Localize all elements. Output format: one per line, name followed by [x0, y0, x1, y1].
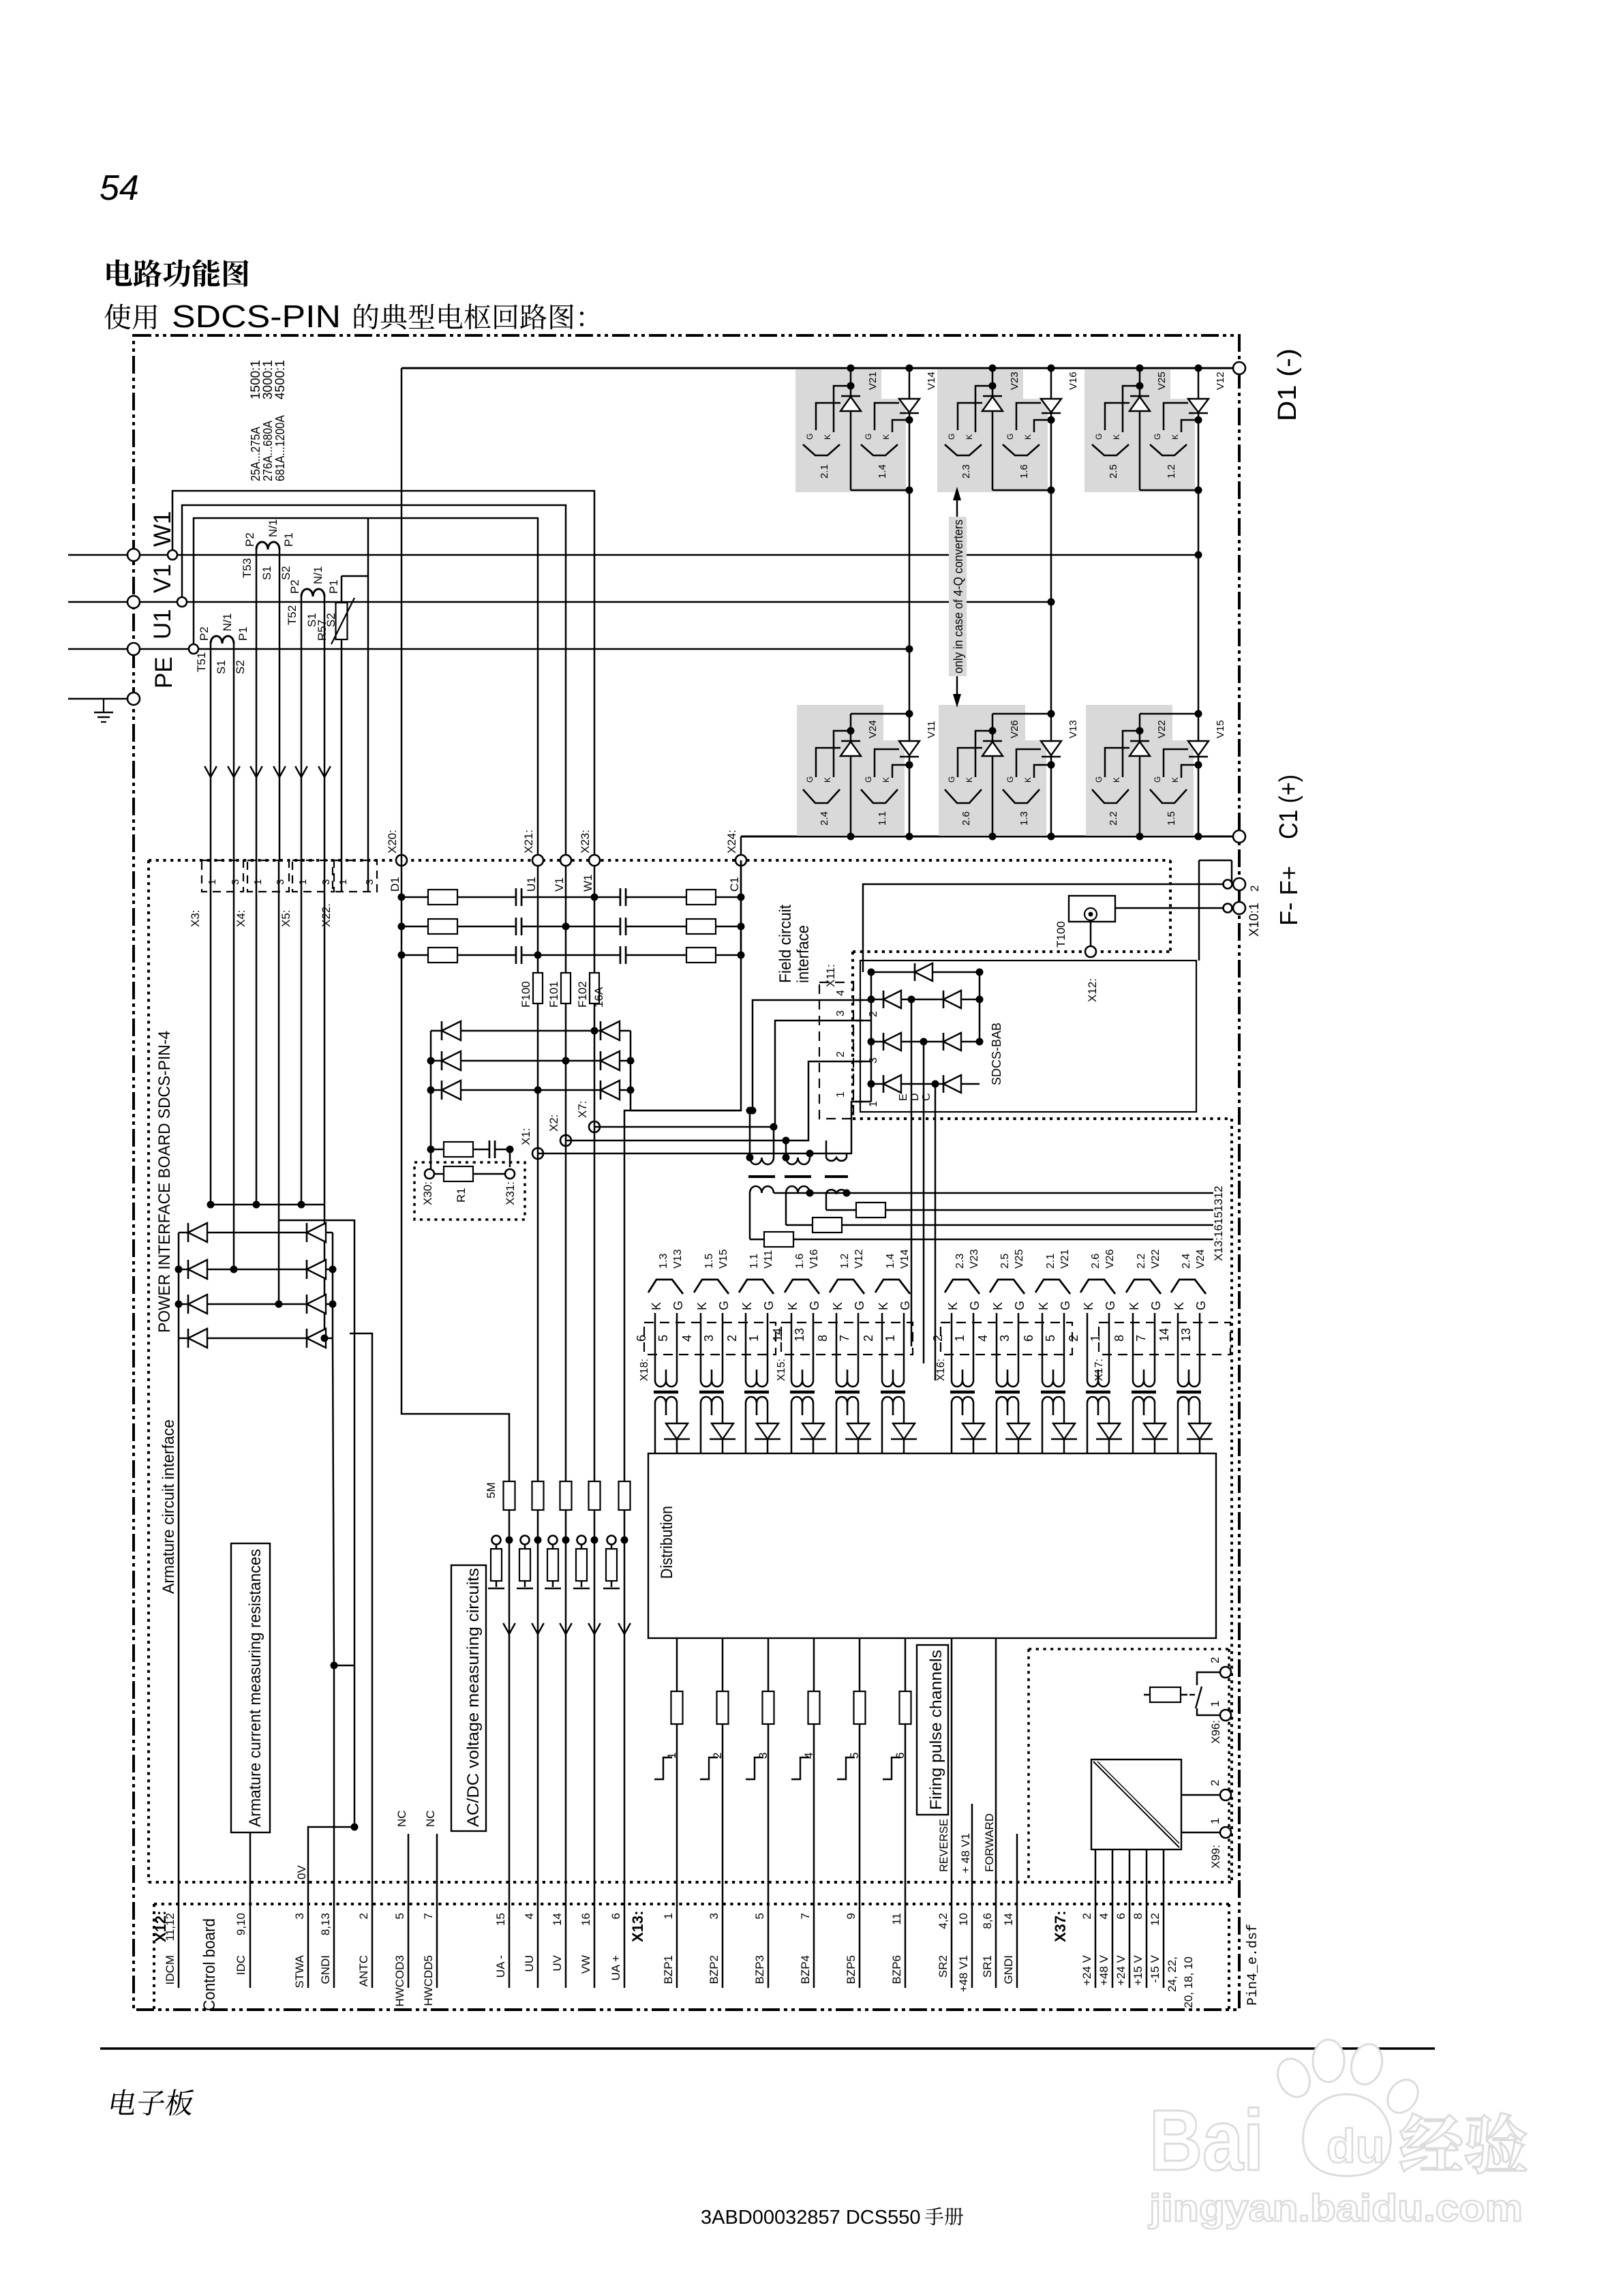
connector X96:2	[1220, 1667, 1231, 1678]
svg-text:2.5: 2.5	[1108, 464, 1119, 479]
resistor snubber R row3 left	[428, 948, 457, 963]
svg-text:X10:1: X10:1	[1247, 903, 1262, 937]
resistor BZP6	[900, 1691, 911, 1724]
svg-text:V12: V12	[1215, 372, 1226, 390]
core	[699, 1391, 724, 1394]
svg-text:BZP5: BZP5	[845, 1955, 858, 1984]
pulse transformer field T1	[749, 1111, 751, 1158]
field taps E D C	[911, 999, 913, 1346]
svg-text:V26: V26	[1104, 1249, 1116, 1269]
svg-text:K: K	[877, 1302, 890, 1310]
svg-text:2: 2	[1080, 1913, 1093, 1919]
diode bridge R1963	[307, 1329, 326, 1348]
svg-text:R57: R57	[316, 620, 329, 641]
svg-text:2.4: 2.4	[1181, 1254, 1192, 1269]
svg-text:G: G	[1153, 776, 1162, 783]
svg-text:13: 13	[793, 1328, 806, 1342]
wire F-	[863, 884, 1223, 972]
wire U1 phase line	[68, 648, 909, 650]
connector X18	[644, 1323, 776, 1355]
svg-text:X17:: X17:	[1093, 1359, 1105, 1381]
svg-text:7: 7	[838, 1335, 851, 1342]
svg-text:11,12: 11,12	[164, 1913, 177, 1941]
svg-text:6: 6	[1022, 1335, 1035, 1342]
svg-text:5: 5	[1044, 1335, 1057, 1342]
node D1 negative rail	[401, 367, 1239, 369]
svg-text:2.1: 2.1	[1045, 1254, 1057, 1269]
svg-text:G: G	[1153, 434, 1162, 440]
svg-text:3: 3	[998, 1335, 1012, 1342]
svg-text:4: 4	[835, 990, 847, 996]
capacitor snubber row2 right	[620, 918, 626, 935]
watermark Baidu Jingyan	[1149, 2040, 1424, 2188]
diode bridge L1808	[188, 1223, 207, 1242]
svg-text:UA +: UA +	[609, 1955, 622, 1980]
connector X31	[505, 1169, 515, 1179]
thyristor V15	[1195, 833, 1202, 841]
resistor BZP3	[763, 1691, 774, 1724]
svg-text:P1: P1	[282, 532, 295, 547]
core	[1041, 1391, 1065, 1394]
resistor 5M UA +	[619, 1481, 631, 1510]
svg-text:8: 8	[1132, 1913, 1144, 1919]
svg-text:X11:: X11:	[824, 964, 837, 987]
wire bridge left bus	[178, 1233, 180, 1338]
connector X30	[425, 1169, 434, 1179]
core	[950, 1391, 975, 1394]
wire V1 entry	[565, 866, 567, 973]
svg-text:P1: P1	[237, 626, 249, 641]
wire -15 V	[1163, 1849, 1165, 1988]
svg-text:11: 11	[890, 1913, 903, 1925]
wire gnd link	[334, 1665, 354, 1667]
svg-text:6: 6	[894, 1753, 907, 1759]
svg-text:G: G	[1149, 1301, 1163, 1310]
svg-text:K: K	[1172, 1302, 1186, 1310]
svg-text:V25: V25	[1014, 1249, 1025, 1269]
svg-text:4: 4	[802, 1753, 815, 1759]
diode bridge L1913	[188, 1295, 207, 1314]
svg-text:K: K	[1170, 777, 1180, 783]
svg-text:1: 1	[662, 1913, 675, 1919]
svg-text:V16: V16	[808, 1249, 820, 1269]
svg-text:PE: PE	[151, 656, 177, 689]
core	[1132, 1391, 1156, 1394]
svg-text:Armature current measuring res: Armature current measuring resistances	[246, 1549, 264, 1827]
svg-text:Control board: Control board	[200, 1918, 219, 2011]
fuse F1 to X96	[1150, 1687, 1181, 1702]
wire C1 snubber bus	[740, 860, 742, 955]
node U1-V14	[906, 646, 913, 653]
capacitor snubber row1 right	[620, 888, 626, 906]
field diode row y=1466	[871, 999, 980, 1001]
svg-text:6: 6	[635, 1335, 648, 1342]
wire X7 run	[594, 1021, 863, 1127]
svg-text:10: 10	[957, 1913, 970, 1926]
wire +24 V	[1129, 1849, 1131, 1988]
svg-text:V15: V15	[718, 1249, 729, 1269]
wire HWCOD3 (NC)	[408, 1834, 410, 1988]
svg-text:3: 3	[868, 1057, 879, 1063]
svg-text:T51: T51	[195, 652, 208, 672]
output BZP5	[859, 1638, 861, 1988]
pulse transformer field T3	[825, 1141, 828, 1158]
svg-text:K: K	[1082, 1302, 1095, 1310]
core	[744, 1391, 769, 1394]
diode clamp L1556	[442, 1051, 461, 1070]
svg-text:P2: P2	[198, 626, 211, 641]
core	[881, 1391, 905, 1394]
svg-text:2.2: 2.2	[1108, 811, 1119, 826]
svg-text:K: K	[650, 1302, 663, 1310]
wire +15 V	[1146, 1849, 1148, 1988]
svg-text:GNDI: GNDI	[319, 1955, 332, 1984]
svg-text:X30:: X30:	[421, 1181, 434, 1205]
svg-text:STWA: STWA	[293, 1954, 306, 1988]
core	[790, 1391, 815, 1394]
svg-text:2: 2	[711, 1753, 724, 1759]
resistor R1	[444, 1166, 473, 1181]
wire V1 phase line	[68, 601, 1051, 603]
field diode row y=1426	[871, 971, 980, 973]
thyristor V23	[937, 369, 1023, 492]
svg-text:G: G	[808, 1301, 821, 1310]
connector X23	[589, 855, 600, 866]
diode bridge L1963	[188, 1329, 207, 1348]
diode field 1426-1355	[915, 963, 932, 981]
thyristor V16	[1050, 368, 1052, 836]
current transformer T51	[211, 636, 234, 644]
svg-text:1.3: 1.3	[658, 1254, 669, 1269]
thyristor V11	[906, 833, 913, 841]
svg-text:V25: V25	[1156, 372, 1168, 390]
svg-text:2.3: 2.3	[954, 1254, 966, 1269]
svg-text:6: 6	[1114, 1913, 1127, 1919]
svg-text:+24 V: +24 V	[1114, 1954, 1127, 1986]
resistor field pulse c	[764, 1232, 793, 1247]
thyristor V14	[909, 368, 911, 836]
svg-text:+24 V: +24 V	[1080, 1954, 1093, 1986]
note only in case of 4-Q converters	[949, 517, 967, 676]
ground	[573, 1588, 590, 1590]
bridge diode row 1913	[179, 1303, 333, 1305]
terminal D1	[1233, 362, 1245, 374]
svg-text:2: 2	[835, 1051, 847, 1057]
connector X20	[396, 855, 407, 866]
svg-text:6: 6	[609, 1913, 622, 1919]
svg-text:K: K	[1023, 777, 1033, 783]
resistor divider UA -	[491, 1549, 502, 1581]
svg-text:D1: D1	[389, 877, 401, 892]
svg-text:X24:: X24:	[725, 830, 738, 854]
diode bridge R1913	[307, 1295, 326, 1314]
bridge diode row 1963	[179, 1338, 333, 1340]
node W1-V12	[1195, 552, 1202, 559]
wire X2 run	[566, 1061, 863, 1141]
svg-text:N/1: N/1	[221, 614, 234, 631]
resistor field pulse a	[856, 1203, 885, 1218]
terminal F+	[1224, 904, 1232, 913]
svg-text:V13: V13	[672, 1249, 684, 1269]
svg-text:K: K	[1023, 434, 1033, 440]
resistor damping	[444, 1142, 473, 1157]
svg-text:1: 1	[868, 1101, 879, 1107]
field diode row y=1590	[871, 1083, 980, 1085]
svg-text:G: G	[1005, 776, 1015, 783]
wire D1 drop	[401, 368, 403, 860]
svg-text:1.3: 1.3	[1018, 811, 1030, 826]
diode clamp R1599	[601, 1081, 620, 1100]
svg-text:K: K	[823, 434, 832, 440]
svg-text:2.2: 2.2	[1136, 1254, 1147, 1269]
svg-text:8,13: 8,13	[319, 1913, 332, 1935]
svg-text:3: 3	[708, 1913, 721, 1919]
svg-text:+15 V: +15 V	[1132, 1954, 1144, 1986]
svg-text:8: 8	[1112, 1335, 1126, 1342]
svg-text:SDCS-BAB: SDCS-BAB	[990, 1023, 1003, 1085]
svg-text:C: C	[921, 1093, 932, 1101]
diode clamp L1512	[442, 1021, 461, 1040]
wire GNDI	[333, 1338, 334, 1988]
svg-text:+ 48 V1: + 48 V1	[959, 1833, 972, 1873]
svg-text:X31:: X31:	[504, 1181, 517, 1205]
output BZP1	[676, 1638, 678, 1988]
control board outline (dotted)	[154, 1903, 1229, 1905]
wire clamp left bus	[430, 1031, 432, 1174]
svg-text:9: 9	[845, 1913, 858, 1919]
transformer T100	[1069, 896, 1115, 922]
svg-text:V12: V12	[853, 1249, 865, 1269]
diode field 1590-1309	[883, 1075, 901, 1093]
svg-text:X20:: X20:	[386, 830, 399, 854]
wire C1 rail drop to X24	[740, 836, 742, 860]
svg-text:UA -: UA -	[494, 1955, 507, 1978]
wire W1 to X23	[172, 491, 594, 860]
svg-text:3: 3	[275, 879, 286, 885]
box firing pulse channels	[917, 1645, 948, 1815]
wire F+	[1115, 907, 1223, 909]
core	[995, 1391, 1020, 1394]
svg-text:X12:: X12:	[1086, 978, 1099, 1002]
svg-text:X22:: X22:	[320, 903, 333, 927]
svg-text:2.1: 2.1	[819, 464, 830, 479]
svg-text:X21:: X21:	[522, 830, 535, 854]
diode clamp L1599	[442, 1081, 461, 1100]
svg-text:1.6: 1.6	[1018, 464, 1030, 479]
clamp diode row y=1556	[431, 1060, 631, 1062]
switch blade	[1196, 1687, 1202, 1708]
capacitor snubber row2 left	[516, 918, 521, 935]
clamp diode row y=1599	[431, 1089, 631, 1091]
box AC/DC voltage measuring circuits	[451, 1565, 486, 1831]
svg-text:G: G	[864, 776, 873, 783]
svg-text:S2: S2	[234, 660, 247, 674]
wire D1 to UA-	[401, 955, 509, 1481]
power supply unit	[1091, 1759, 1181, 1849]
node C1 positive rail	[741, 836, 1239, 838]
svg-text:P1: P1	[327, 579, 340, 594]
footer 电子板	[110, 2089, 138, 2115]
svg-text:2: 2	[868, 1011, 879, 1017]
connector X22 (dashed)	[333, 860, 377, 892]
svg-text:G: G	[762, 1301, 776, 1310]
svg-text:IDCM: IDCM	[164, 1955, 177, 1984]
wire field pulse 1.x	[786, 1224, 1213, 1226]
svg-text:25A...275A: 25A...275A	[249, 427, 262, 481]
connector X15	[781, 1323, 913, 1355]
wire field pulse common	[774, 1192, 1213, 1194]
svg-text:Armature circuit interface: Armature circuit interface	[160, 1419, 178, 1594]
svg-text:3ABD00032857 DCS550: 3ABD00032857 DCS550	[701, 2207, 920, 2229]
svg-text:7: 7	[799, 1913, 812, 1919]
svg-text:1.2: 1.2	[839, 1254, 851, 1269]
svg-text:NC: NC	[424, 1810, 437, 1827]
RC snubber row 2	[401, 926, 741, 928]
svg-text:276A...680A: 276A...680A	[261, 421, 275, 481]
svg-text:9,10: 9,10	[234, 1913, 247, 1935]
wire link V25-V12	[1140, 489, 1198, 491]
svg-text:D1 (-): D1 (-)	[1273, 348, 1302, 421]
connector X21	[532, 855, 543, 866]
svg-text:3: 3	[293, 1913, 306, 1919]
connector X24	[735, 855, 746, 866]
wire field bus right	[979, 972, 981, 1042]
svg-text:P2: P2	[288, 579, 301, 594]
resistor divider UV	[547, 1549, 558, 1581]
RC damping row	[431, 1149, 510, 1151]
svg-text:G: G	[947, 776, 956, 783]
svg-text:1.5: 1.5	[1166, 811, 1177, 826]
node V1-V16	[1048, 599, 1055, 606]
svg-text:V14: V14	[926, 372, 937, 390]
svg-text:V21: V21	[867, 372, 879, 390]
svg-text:V1: V1	[149, 564, 176, 593]
fuse F101	[561, 973, 571, 1003]
svg-text:K: K	[823, 777, 832, 783]
svg-text:X4:: X4:	[234, 909, 247, 927]
svg-text:BZP4: BZP4	[799, 1955, 812, 1984]
fuse F100	[533, 973, 543, 1003]
resistor 5M VW	[589, 1481, 601, 1510]
svg-text:F101: F101	[547, 981, 560, 1008]
wire link V23-V16	[992, 489, 1051, 491]
svg-text:X16:: X16:	[935, 1359, 947, 1381]
connector X17	[1099, 1323, 1230, 1355]
svg-text:16: 16	[579, 1913, 592, 1926]
capacitor snubber row1 left	[516, 888, 521, 906]
svg-text:Firing pulse channels: Firing pulse channels	[927, 1650, 945, 1810]
terminal F-	[1224, 880, 1232, 889]
diode field 1528-1309	[883, 1033, 901, 1051]
svg-text:K: K	[965, 434, 974, 440]
svg-text:X15:: X15:	[776, 1359, 787, 1381]
connector X30 / resistor R1 / connector X31 box	[414, 1162, 525, 1220]
wire +24 V	[1095, 1849, 1097, 1988]
svg-text:F100: F100	[519, 981, 532, 1008]
svg-text:du: du	[1326, 2119, 1385, 2173]
resistor 5M UU	[532, 1481, 544, 1510]
connector X5 (dashed)	[292, 860, 334, 892]
connector X99:2	[1220, 1789, 1231, 1800]
resistor snubber R row3 right	[686, 948, 716, 963]
svg-text:G: G	[1094, 776, 1104, 783]
wire U1 measure	[537, 1003, 539, 1481]
core	[654, 1391, 678, 1394]
node U1 tap	[189, 644, 198, 654]
connector X16	[941, 1323, 1072, 1355]
svg-text:4500:1: 4500:1	[273, 360, 288, 399]
wire V1 measure	[565, 1003, 567, 1481]
svg-text:UU: UU	[523, 1955, 536, 1972]
ground	[545, 1588, 561, 1590]
svg-text:1: 1	[953, 1335, 967, 1342]
svg-text:1.4: 1.4	[877, 464, 888, 479]
svg-text:V23: V23	[1009, 372, 1020, 390]
diode bridge R1808	[307, 1223, 326, 1242]
field bridge internals	[855, 999, 871, 1001]
heading 电路功能图	[107, 259, 132, 286]
footer rule	[100, 2047, 1435, 2050]
svg-text:GNDI: GNDI	[1002, 1955, 1015, 1984]
svg-text:UV: UV	[551, 1954, 564, 1971]
output BZP2	[722, 1638, 724, 1988]
node W1 tap	[168, 550, 177, 560]
svg-text:BZP2: BZP2	[708, 1955, 721, 1984]
output BZP3	[768, 1638, 770, 1988]
svg-text:3: 3	[320, 879, 332, 885]
svg-text:BZP6: BZP6	[890, 1955, 903, 1984]
power supply section outline (dotted)	[1029, 1648, 1229, 1650]
svg-text:K: K	[831, 1302, 845, 1310]
core	[1086, 1391, 1110, 1394]
svg-text:SDCS-PIN: SDCS-PIN	[172, 299, 341, 334]
svg-text:14: 14	[1157, 1328, 1171, 1342]
svg-text:14: 14	[1002, 1913, 1015, 1926]
diode field 1466-1397	[943, 991, 961, 1008]
svg-text:2: 2	[1248, 886, 1261, 892]
svg-text:-15 V: -15 V	[1149, 1954, 1162, 1982]
resistor snubber R row1 left	[428, 890, 457, 905]
svg-text:G: G	[671, 1301, 685, 1310]
svg-text:G: G	[1094, 434, 1104, 440]
svg-text:1.2: 1.2	[1166, 464, 1177, 479]
svg-text:24, 22,: 24, 22,	[1166, 1957, 1179, 1992]
wire U1 entry	[537, 866, 539, 973]
wire X99:1	[1181, 1832, 1220, 1834]
capacitor snubber row3 right	[620, 946, 626, 964]
svg-text:V15: V15	[1215, 720, 1226, 738]
svg-text:2: 2	[1209, 1657, 1222, 1663]
svg-text:54: 54	[100, 168, 139, 208]
svg-text:AC/DC voltage measuring circui: AC/DC voltage measuring circuits	[464, 1568, 483, 1827]
svg-text:2: 2	[357, 1913, 370, 1919]
varistor R57	[342, 575, 368, 577]
svg-text:V24: V24	[867, 720, 879, 738]
svg-text:X37:: X37:	[1052, 1911, 1069, 1942]
resistor snubber R row2 right	[686, 919, 716, 934]
distribution block	[648, 1453, 1216, 1638]
connector X1	[532, 1148, 543, 1159]
thyristor V12	[1198, 368, 1200, 836]
bridge diode row 1862	[179, 1269, 333, 1271]
diode bridge L1862	[188, 1260, 207, 1279]
diode clamp R1512	[601, 1021, 620, 1040]
svg-text:S2: S2	[279, 566, 292, 580]
svg-text:V16: V16	[1067, 372, 1079, 390]
svg-text:K: K	[1112, 434, 1121, 440]
svg-text:X23:: X23:	[579, 830, 592, 854]
svg-text:X13:: X13:	[629, 1911, 646, 1942]
